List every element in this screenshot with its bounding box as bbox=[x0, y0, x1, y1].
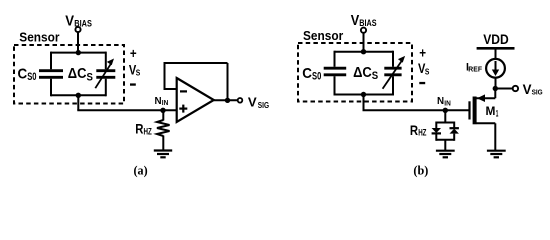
ground under M1 bbox=[487, 151, 506, 158]
terminal VSIG (a) bbox=[238, 98, 243, 103]
wire top rail (a) bbox=[51, 52, 106, 54]
wire feedback left vertical (a) bbox=[164, 63, 166, 90]
wire diodes to ground (b) bbox=[444, 140, 446, 151]
node NIN (a) bbox=[160, 108, 165, 113]
terminal VBIAS (b) bbox=[361, 28, 366, 33]
wire minus input (a) bbox=[165, 88, 177, 90]
node NIN (b) bbox=[443, 108, 448, 113]
label VBIAS (a) bbox=[65, 13, 92, 30]
wire right branch top (b) bbox=[392, 51, 394, 67]
svg-text:(a): (a) bbox=[134, 163, 148, 177]
svg-text:VDD: VDD bbox=[483, 32, 509, 47]
wire VBIAS stem (a) bbox=[77, 32, 79, 53]
node top (a) bbox=[76, 50, 81, 55]
svg-text:HZ: HZ bbox=[418, 128, 427, 138]
current source IREF circle bbox=[486, 59, 505, 78]
wire right branch top (a) bbox=[105, 52, 107, 70]
label minus VS (b) bbox=[419, 82, 425, 84]
resistor RHZ (a) bbox=[157, 110, 170, 150]
label NIN (a) bbox=[155, 96, 169, 107]
wire right branch bottom (b) bbox=[392, 76, 394, 95]
label IREF bbox=[466, 61, 482, 73]
ground under diodes (b) bbox=[436, 151, 455, 158]
label CS0 (a) bbox=[18, 65, 37, 83]
terminal VSIG (b) bbox=[513, 86, 518, 91]
label minus VS (a) bbox=[130, 83, 136, 85]
svg-text:V: V bbox=[523, 82, 532, 97]
svg-text:V: V bbox=[65, 13, 74, 30]
op-amp U1 (a) bbox=[177, 78, 214, 122]
svg-text:IN: IN bbox=[162, 98, 169, 107]
label dCS (a) bbox=[68, 66, 93, 83]
svg-text:V: V bbox=[248, 94, 257, 109]
label minus input bbox=[180, 90, 187, 92]
svg-text:ΔC: ΔC bbox=[353, 65, 372, 81]
transistor M1 drain wire with arrow bbox=[477, 89, 496, 103]
node bottom (b) bbox=[361, 92, 366, 97]
svg-text:SIG: SIG bbox=[532, 88, 543, 97]
label dCS (b) bbox=[353, 65, 378, 82]
svg-text:+: + bbox=[419, 45, 426, 60]
transistor M1 source wire bbox=[477, 123, 496, 150]
label VS (b) bbox=[418, 61, 430, 76]
terminal VBIAS (a) bbox=[75, 27, 80, 32]
wire sensor to NIN vertical (b) bbox=[363, 95, 365, 111]
node drain VSIG (b) bbox=[493, 86, 498, 91]
svg-text:Sensor: Sensor bbox=[19, 30, 59, 45]
wire left branch bottom (a) bbox=[50, 79, 52, 97]
wire bottom rail (a) bbox=[51, 94, 106, 96]
svg-text:(b): (b) bbox=[413, 163, 428, 177]
svg-text:ΔC: ΔC bbox=[68, 66, 87, 82]
wire VBIAS stem (b) bbox=[363, 33, 365, 52]
svg-text:HZ: HZ bbox=[144, 126, 153, 136]
svg-text:R: R bbox=[135, 122, 143, 137]
svg-text:N: N bbox=[155, 96, 162, 107]
supply VDD bar bbox=[477, 47, 515, 50]
svg-text:BIAS: BIAS bbox=[359, 18, 376, 28]
label M1 bbox=[486, 104, 499, 120]
label VSIG (a) bbox=[248, 94, 269, 110]
node top (b) bbox=[361, 49, 366, 54]
wire left branch top (a) bbox=[50, 52, 52, 70]
node output (a) bbox=[225, 98, 230, 103]
svg-text:M: M bbox=[486, 104, 496, 118]
capacitor CS0 (a) bbox=[39, 71, 63, 78]
svg-text:IN: IN bbox=[444, 99, 451, 108]
label VSIG (b) bbox=[523, 82, 543, 97]
svg-text:R: R bbox=[410, 123, 418, 138]
wire output (a) bbox=[214, 99, 238, 101]
wire sensor to NIN vertical (a) bbox=[77, 95, 79, 110]
wire NIN horizontal (b) bbox=[363, 109, 469, 111]
svg-text:S: S bbox=[87, 72, 93, 84]
node bottom (a) bbox=[76, 93, 81, 98]
wire right branch bottom (a) bbox=[105, 79, 107, 97]
wire feedback right vertical (a) bbox=[227, 63, 229, 100]
svg-text:1: 1 bbox=[496, 108, 499, 119]
svg-text:S: S bbox=[372, 70, 378, 82]
svg-text:+: + bbox=[130, 46, 137, 61]
svg-text:S: S bbox=[136, 69, 141, 78]
wire left branch top (b) bbox=[334, 51, 336, 67]
label VS (a) bbox=[129, 63, 141, 78]
current source IREF wire from VDD bbox=[495, 48, 497, 88]
label RHZ (a) bbox=[135, 122, 152, 137]
sensor box (b) bbox=[298, 43, 412, 102]
label RHZ (b) bbox=[410, 123, 427, 138]
wire NIN horizontal (a) bbox=[77, 109, 176, 111]
ground (a) bbox=[154, 151, 172, 158]
capacitor dCS variable (b) bbox=[383, 56, 406, 89]
label VBIAS (b) bbox=[351, 12, 377, 29]
svg-text:V: V bbox=[351, 12, 360, 29]
svg-text:N: N bbox=[437, 96, 444, 107]
diode pair top bar bbox=[436, 122, 454, 124]
label CS0 (b) bbox=[302, 65, 321, 83]
label NIN (b) bbox=[437, 96, 451, 108]
wire NIN to diodes (b) bbox=[444, 110, 446, 123]
svg-text:S0: S0 bbox=[27, 71, 36, 83]
wire left branch bottom (b) bbox=[334, 76, 336, 95]
svg-text:S: S bbox=[425, 67, 430, 76]
current source IREF arrow bbox=[492, 61, 499, 76]
label plus input bbox=[179, 105, 187, 113]
wire bottom rail (b) bbox=[335, 94, 394, 96]
sensor box (a) bbox=[14, 45, 124, 104]
capacitor CS0 (b) bbox=[324, 68, 347, 75]
wire VSIG (b) bbox=[495, 88, 512, 90]
svg-text:REF: REF bbox=[468, 65, 482, 74]
svg-text:C: C bbox=[302, 65, 312, 82]
wire top rail (b) bbox=[335, 51, 394, 53]
svg-text:Sensor: Sensor bbox=[303, 28, 343, 43]
wire feedback top (a) bbox=[164, 62, 228, 64]
svg-text:SIG: SIG bbox=[258, 101, 269, 110]
diode D2 (right, pointing up) bbox=[450, 122, 459, 141]
transistor M1 gate bar bbox=[468, 101, 470, 119]
diode D1 (left, pointing down) bbox=[432, 122, 441, 141]
svg-text:S0: S0 bbox=[312, 71, 321, 83]
capacitor dCS variable (a) bbox=[95, 59, 115, 89]
diode pair bottom bar bbox=[436, 139, 454, 141]
svg-text:C: C bbox=[18, 65, 28, 82]
transistor M1 channel bar bbox=[473, 97, 477, 125]
